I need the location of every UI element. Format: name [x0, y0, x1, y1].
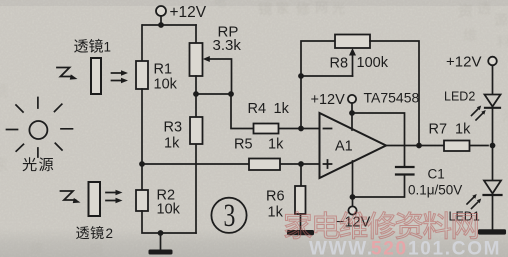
svg-text:LED2: LED2: [444, 90, 475, 104]
node H (R8 left node): [298, 73, 304, 79]
node E (inverting input): [298, 126, 304, 132]
node K (V- pin node): [350, 194, 356, 200]
resistor R1: [136, 61, 148, 89]
node J (V+ pin node): [349, 110, 355, 116]
node G1: [158, 230, 164, 236]
wire: [352, 113, 405, 166]
node F (non-inverting input): [298, 161, 304, 167]
svg-text:R1: R1: [154, 62, 173, 78]
svg-text:3.3k: 3.3k: [213, 37, 242, 54]
svg-text:1k: 1k: [268, 205, 284, 221]
wire: [492, 109, 494, 146]
wire: [301, 75, 353, 77]
wire: [370, 41, 419, 146]
svg-text:1: 1: [104, 40, 112, 55]
wire: [492, 196, 494, 229]
pin + (non-inverting): [324, 163, 332, 165]
terminal -12V: [348, 206, 356, 214]
svg-text:+12V: +12V: [311, 92, 346, 108]
svg-text:C1: C1: [428, 167, 445, 182]
svg-text:3: 3: [224, 197, 236, 234]
light source (guangYuan): [29, 121, 47, 139]
capacitor C1: [396, 166, 414, 168]
svg-text:100k: 100k: [357, 55, 389, 71]
wire: [141, 89, 143, 190]
wire (output): [386, 145, 488, 147]
wire: [142, 163, 319, 165]
svg-text:R4: R4: [248, 101, 267, 117]
wire: [301, 41, 335, 129]
figure number 3: [211, 198, 246, 233]
resistor R5: [249, 159, 280, 171]
potentiometer RP: [195, 25, 197, 43]
LED1 arrows: [467, 197, 479, 209]
node A (top rail junction): [158, 22, 164, 28]
svg-text:520: 520: [371, 239, 408, 257]
svg-text:10k: 10k: [157, 202, 181, 218]
svg-text:R6: R6: [266, 189, 285, 205]
wire: [143, 24, 196, 26]
svg-text:R8: R8: [330, 56, 349, 72]
wiper of RP: [203, 56, 210, 62]
label lens2 (touJing2): [76, 226, 89, 239]
svg-text:0.1μ/50V: 0.1μ/50V: [408, 183, 462, 198]
light arrows into R2: [106, 193, 118, 201]
svg-text:R5: R5: [234, 137, 253, 153]
wiper of R8: [349, 48, 356, 56]
wire: [160, 233, 162, 249]
node C (RP bottom): [193, 91, 199, 97]
node D (wiper node): [228, 91, 234, 97]
ground: [478, 229, 506, 234]
svg-text:101.COM: 101.COM: [408, 239, 501, 257]
ground: [149, 250, 173, 255]
svg-text:A1: A1: [335, 139, 353, 155]
node L (output node): [416, 143, 422, 149]
LED1: [484, 181, 501, 194]
ground: [287, 230, 314, 235]
wire: [196, 93, 231, 95]
terminal +12V op-amp: [348, 95, 356, 103]
svg-text:R3: R3: [164, 120, 183, 136]
svg-text:1k: 1k: [268, 137, 284, 153]
resistor R8: [335, 35, 370, 49]
svg-text:+12V: +12V: [446, 54, 481, 71]
resistor R4: [254, 124, 279, 134]
rays of light source: [7, 98, 73, 158]
ray arrow Z1: [57, 68, 72, 77]
ray arrow Z2: [61, 191, 76, 200]
pin - (inverting): [324, 128, 332, 130]
svg-text:2: 2: [106, 226, 114, 241]
LED2 arrows: [472, 109, 484, 121]
label light source: [23, 157, 37, 171]
resistor R2: [136, 190, 148, 211]
LED2: [485, 95, 501, 107]
svg-text:R7: R7: [429, 122, 448, 138]
lens 2: [89, 182, 101, 216]
svg-text:1k: 1k: [274, 101, 290, 117]
svg-text:+12V: +12V: [170, 4, 207, 21]
svg-text:1k: 1k: [164, 136, 180, 152]
wire: [492, 65, 494, 94]
resistor R7: [444, 141, 470, 152]
svg-text:10k: 10k: [154, 77, 178, 93]
wire: [352, 161, 354, 206]
svg-text:TA75458: TA75458: [364, 90, 420, 106]
svg-text:1k: 1k: [455, 122, 471, 138]
wire: [353, 176, 405, 198]
watermark text: [285, 212, 478, 239]
svg-text:WWW.: WWW.: [309, 239, 374, 257]
resistor R6: [300, 164, 302, 186]
light arrows into R1: [112, 73, 124, 81]
label lens1 (touJing1): [74, 39, 88, 53]
terminal +12V right: [488, 57, 497, 66]
wire: [142, 211, 196, 233]
wire: [492, 146, 494, 181]
wire: [231, 94, 319, 129]
node M (LED junction): [490, 143, 496, 149]
resistor R3: [195, 94, 197, 233]
terminal +12V top: [156, 6, 166, 16]
lens 1: [91, 58, 101, 94]
op-amp A1: [320, 113, 387, 178]
wire: [351, 103, 353, 130]
wire: [141, 25, 143, 61]
node B (R1-R2 junction): [139, 161, 145, 167]
